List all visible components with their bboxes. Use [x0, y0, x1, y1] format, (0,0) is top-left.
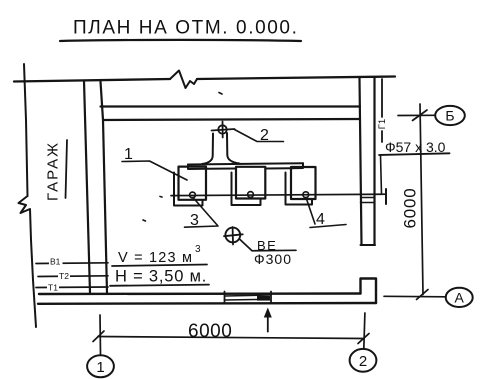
floor drain marker ВЕ	[225, 228, 240, 243]
manifold bar bottom segments	[207, 168, 237, 170]
pump 1 offset rect	[174, 173, 203, 206]
svg-text:Б: Б	[445, 108, 454, 124]
right wall column	[360, 78, 362, 245]
axis Б slash	[413, 110, 428, 121]
svg-text:Т2: Т2	[59, 271, 69, 281]
label 2	[260, 127, 269, 144]
svg-text:6000: 6000	[401, 187, 420, 228]
svg-text:В1: В1	[50, 257, 61, 267]
speck left of pipe	[160, 196, 162, 199]
suction pipe left tick	[173, 191, 175, 200]
axis 2 extension line	[364, 313, 365, 349]
ГАРАЖ label (rotated)	[45, 141, 62, 201]
pump 3 offset rect	[286, 173, 313, 205]
speck near top wall	[219, 93, 222, 95]
pump 2 offset rect	[232, 173, 261, 206]
svg-text:V = 123 м: V = 123 м	[118, 250, 193, 266]
pump 1 drain circle	[190, 192, 196, 198]
Ф57x3.0 leader to pipe	[381, 155, 382, 194]
volume text V=123 m3	[118, 244, 201, 266]
inner room top line	[103, 119, 360, 120]
svg-text:А: А	[455, 290, 465, 306]
pump 1 main rect	[179, 167, 207, 200]
6000 bottom dimension text	[188, 321, 232, 342]
height text H=3.50 m	[115, 268, 207, 286]
label 3 leader	[185, 198, 219, 228]
title underline	[60, 40, 301, 41]
top wall inner line	[101, 105, 361, 107]
title: ПЛАН НА ОТМ. 0.000.	[73, 18, 298, 39]
left wall inner line A	[84, 81, 90, 293]
outer top wall line right part	[197, 77, 395, 80]
outer top wall line with break	[14, 79, 170, 82]
pump 2 drain circle	[248, 192, 254, 198]
bottom dimension line	[98, 337, 364, 339]
pipe Т1	[36, 286, 108, 289]
pipe В1	[36, 262, 108, 265]
bottom wall outer line	[39, 292, 361, 295]
axis 2 circle	[350, 349, 377, 372]
break symbol on left wall	[19, 196, 37, 327]
svg-text:4: 4	[316, 211, 325, 228]
Ф57x3.0 label	[385, 139, 446, 155]
label 4 leader	[306, 198, 346, 228]
label 3	[190, 212, 199, 229]
label 2 leader	[235, 130, 284, 142]
axis Б circle	[435, 106, 465, 125]
svg-text:H = 3,50 м.: H = 3,50 м.	[115, 268, 207, 286]
axis А line	[384, 295, 446, 298]
axis А slash	[417, 290, 429, 300]
svg-text:Ф300: Ф300	[254, 251, 292, 267]
speck left of pumps	[143, 220, 146, 221]
svg-text:Т1: Т1	[48, 282, 58, 292]
label Т2	[58, 271, 70, 281]
manifold bar top	[188, 163, 303, 164]
pipe sleeve in wall	[361, 197, 374, 199]
axis 1 circle	[87, 355, 114, 377]
manifold bar right end	[291, 163, 303, 168]
pump 3 drain circle	[303, 192, 309, 198]
svg-text:2: 2	[359, 353, 367, 370]
break symbol on top wall	[170, 71, 197, 89]
manifold stem	[202, 134, 213, 165]
axis Б line	[398, 114, 435, 116]
pipe Т2	[38, 275, 108, 278]
column bottom cap	[361, 244, 376, 246]
vertical dimension line right	[420, 104, 423, 295]
svg-text:6000: 6000	[188, 321, 232, 342]
axis А circle	[446, 288, 473, 307]
ВЕ leader	[240, 240, 296, 251]
Ф57x3.0 underline	[379, 153, 450, 155]
pump 2 main rect	[236, 167, 265, 199]
svg-text:ПЛАН НА ОТМ. 0.000.: ПЛАН НА ОТМ. 0.000.	[73, 18, 298, 39]
rule under H	[110, 285, 209, 286]
left wall inner line B	[101, 82, 108, 294]
door leaf filled	[257, 296, 270, 301]
svg-text:ГАРАЖ: ГАРАЖ	[45, 141, 62, 201]
bottom-right corner column	[361, 279, 377, 304]
bottom wall inner line	[38, 302, 376, 305]
door opening in bottom wall	[224, 292, 226, 304]
door arrow	[267, 313, 269, 332]
suction pipe line	[171, 194, 386, 195]
label 1 leader	[122, 161, 187, 180]
outer left wall line (garage wall)	[24, 64, 28, 196]
manifold bar left end	[188, 165, 207, 170]
rule under V	[112, 265, 207, 267]
label Т1	[47, 282, 59, 292]
svg-text:3: 3	[195, 244, 201, 255]
Г1 label (rotated)	[377, 119, 388, 129]
svg-text:1: 1	[96, 359, 104, 376]
6000 vertical dimension text	[401, 187, 420, 228]
pump 3 main rect	[291, 167, 316, 199]
label В1	[49, 257, 63, 267]
svg-text:Ф57 х 3.0: Ф57 х 3.0	[385, 139, 446, 155]
ВЕ label	[254, 238, 292, 267]
svg-text:1: 1	[124, 146, 133, 163]
bottom dimension slash left	[93, 331, 104, 342]
axis 1 extension line	[99, 315, 102, 355]
Г1 leader line	[381, 79, 383, 117]
label 1	[124, 146, 133, 163]
suction pipe right flange	[385, 189, 387, 204]
svg-text:Г1: Г1	[377, 119, 388, 129]
pump unit marker 2: circle with cross on stem	[218, 125, 226, 133]
bottom dimension slash right	[358, 334, 369, 344]
ГАРАЖ underline	[66, 140, 68, 198]
label 4	[316, 211, 325, 228]
